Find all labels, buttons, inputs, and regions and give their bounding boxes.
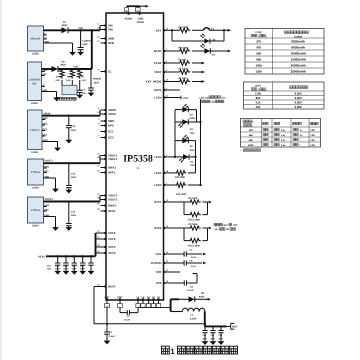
- svg-text:LEDG: LEDG: [154, 88, 162, 92]
- U1 left pin VOUT2 (pin 40): [97, 197, 118, 202]
- resistor R1 3.3K: [55, 69, 64, 82]
- U1 left pin VSYS (pin 13): [97, 230, 115, 235]
- wire row y81.5: [167, 81, 202, 83]
- wire row y72: [167, 71, 202, 73]
- svg-text:SS34: SS34: [199, 295, 205, 298]
- svg-text:36K: 36K: [249, 134, 254, 137]
- svg-text:VCC: VCC: [221, 96, 226, 99]
- svg-text:NTC1 100K: NTC1 100K: [188, 219, 200, 222]
- capacitor C4 10uF on BAT pin: [104, 308, 115, 341]
- table VSET resistor vs battery type: [244, 82, 325, 109]
- U1 right pin BLED (pin 4): [154, 48, 168, 53]
- GND test pad square: [136, 8, 141, 12]
- svg-text:56k: 56k: [256, 51, 261, 55]
- svg-text:10uF: 10uF: [210, 337, 216, 340]
- svg-text:DM1: DM1: [44, 165, 49, 168]
- wire NTC2 row: [167, 227, 184, 229]
- svg-text:TYPE-A: TYPE-A: [31, 209, 41, 212]
- diode D8 SS34: [42, 60, 67, 72]
- wire VOUT1 net (thick) into U1: [44, 156, 101, 165]
- svg-text:VCC: VCC: [183, 97, 189, 100]
- wire row y63: [167, 62, 202, 64]
- Apple e-marker IC box: [62, 80, 77, 95]
- svg-text:R8 56K: R8 56K: [179, 59, 187, 62]
- U1 right pin LED3 (pin 3): [154, 154, 167, 159]
- IC U1 IP5358 power-bank SoC body: [106, 13, 164, 300]
- wire VOUT2 net (thick) into U1: [44, 196, 101, 203]
- resistor R8 56K: [178, 59, 190, 66]
- node VOUT1 label: [45, 160, 54, 163]
- svg-text:USB3: USB3: [31, 151, 38, 154]
- note text LED4 pull-up (CJK): [200, 96, 227, 104]
- net flag arrow y72: [202, 71, 205, 74]
- terminal BAT: [231, 323, 238, 329]
- node VCC label at LED4: [183, 97, 189, 100]
- svg-text:RST: RST: [118, 296, 123, 299]
- svg-text:DNB: DNB: [108, 37, 114, 41]
- svg-text:100%: 100%: [189, 117, 195, 120]
- wire VCC row: [167, 253, 202, 255]
- svg-text:10uF: 10uF: [72, 268, 78, 271]
- U1 left pin VSYS (pin 16): [97, 236, 115, 241]
- svg-text:NTC1: NTC1: [154, 200, 162, 204]
- resistor R2 2.2K: [66, 69, 75, 82]
- capacitor C19 10uF on VSYS: [47, 255, 61, 271]
- wire OTP/OD row: [167, 262, 202, 264]
- svg-text:0.1uF: 0.1uF: [109, 335, 115, 338]
- wire USB4 GND: [42, 92, 57, 98]
- net flag arrow NTC2: [209, 227, 212, 230]
- svg-text:VSET: VSET: [255, 85, 262, 88]
- svg-text:4.40V: 4.40V: [294, 105, 302, 109]
- svg-text:10uF: 10uF: [80, 268, 86, 271]
- svg-text:68k: 68k: [256, 57, 261, 61]
- svg-text:VBUS: VBUS: [108, 112, 116, 116]
- wire VIN bus from D8 (thick): [58, 68, 92, 70]
- resistor R6 10K: [178, 77, 190, 84]
- svg-text:DMA1: DMA1: [108, 166, 116, 170]
- svg-text:20k: 20k: [256, 105, 261, 109]
- svg-text:10uF: 10uF: [47, 268, 53, 271]
- svg-text:10uF: 10uF: [71, 129, 77, 132]
- connector USB1 TYPE-A output: [28, 197, 50, 228]
- svg-text:pin: pin: [215, 228, 219, 231]
- svg-text:R9 100R: R9 100R: [179, 47, 188, 50]
- svg-text:4.30V: 4.30V: [294, 96, 302, 100]
- wire USB5 GND: [44, 43, 73, 52]
- svg-text:USB2: USB2: [32, 187, 39, 190]
- svg-text:VCC: VCC: [156, 252, 162, 256]
- svg-text:VOUT2: VOUT2: [108, 198, 118, 202]
- svg-text:10uF: 10uF: [94, 81, 100, 84]
- capacitor C11 10uF on BAT rail: [202, 326, 208, 342]
- wire USB5 VBUS to diode D7: [44, 29, 62, 31]
- svg-text:CC2: CC2: [108, 136, 114, 140]
- U1 right pin OTP/OD (pin 24): [151, 260, 169, 265]
- svg-text:SS34: SS34: [62, 24, 68, 27]
- svg-text:GND: GND: [138, 18, 144, 21]
- svg-text:DMC: DMC: [108, 119, 114, 123]
- ground for C14: [66, 190, 72, 193]
- table footnote: [241, 149, 261, 153]
- node VBUS label: [44, 112, 51, 115]
- resistor R5 120K: [184, 197, 208, 204]
- LED D3 75%: [175, 119, 201, 135]
- capacitor C2 0.1uF on RST: [120, 308, 138, 322]
- svg-text:BAT: BAT: [105, 296, 110, 299]
- U1 right pin KEY (pin 19): [156, 27, 169, 32]
- svg-text:0.1uF: 0.1uF: [124, 319, 130, 322]
- thermistor NTC1 100K: [184, 202, 208, 222]
- svg-text:51k: 51k: [256, 101, 261, 105]
- net flag arrow y63: [202, 62, 205, 65]
- svg-text:EPAD: EPAD: [137, 21, 144, 24]
- svg-text:LED3: LED3: [154, 155, 162, 159]
- ground for C22: [80, 271, 86, 274]
- svg-text:LX: LX: [157, 296, 160, 299]
- svg-text:CPS: CPS: [156, 281, 162, 285]
- svg-text:*: *: [241, 149, 242, 152]
- svg-text:R11 100K: R11 100K: [175, 176, 186, 179]
- U1 bottom pin LX3 with pad: [146, 296, 150, 308]
- wire VSYS stub y253: [96, 252, 101, 254]
- svg-text:10K: 10K: [249, 129, 254, 132]
- svg-text:DPB: DPB: [108, 41, 114, 45]
- U1 right pin VCC (pin 21): [156, 251, 169, 256]
- svg-text:VSYS: VSYS: [108, 251, 116, 255]
- svg-text:FCAP: FCAP: [154, 61, 162, 65]
- U1 left pin VIN (pin 17): [97, 23, 112, 28]
- capacitor C12 10uF on BAT rail: [210, 326, 216, 342]
- U1 left pin BATS (pin 19): [97, 284, 115, 289]
- net flag arrow KEY to VOUT: [228, 29, 231, 32]
- net flag arrow y81.5: [202, 80, 205, 83]
- U1 right pin NTC2 (pin 26): [154, 225, 169, 230]
- svg-text:VIN: VIN: [108, 28, 113, 32]
- svg-text:1uF: 1uF: [82, 92, 87, 95]
- svg-text:USB1: USB1: [32, 225, 39, 228]
- ground for C11: [202, 342, 208, 345]
- svg-text:DMA2: DMA2: [108, 204, 116, 208]
- wire VBUS net (thick) into U1: [42, 110, 100, 117]
- U1 right pin VSET (pin 8): [154, 69, 168, 74]
- wire VSYS stub y233: [96, 232, 101, 234]
- svg-text:50%: 50%: [190, 149, 195, 152]
- U1 left pin VSYS (pin 47): [97, 250, 115, 255]
- svg-text:VSYS: VSYS: [108, 231, 116, 235]
- svg-text:R5 120K: R5 120K: [189, 197, 198, 200]
- wire USB3 GND: [42, 142, 58, 148]
- wire VSYS stub y247: [96, 246, 101, 248]
- wire LEDG stub: [167, 89, 180, 91]
- wire LED ladder right rail: [199, 99, 201, 186]
- svg-text:CC2: CC2: [43, 133, 48, 136]
- svg-text:Micro-B: Micro-B: [31, 38, 41, 41]
- svg-text:110k: 110k: [255, 92, 262, 96]
- wire KEY parallel branch: [172, 30, 224, 41]
- svg-text:10uF: 10uF: [202, 337, 208, 340]
- svg-text:DMC: DMC: [43, 117, 48, 120]
- svg-text:VIN: VIN: [78, 27, 82, 30]
- push button K1: [204, 28, 215, 31]
- svg-text:120k: 120k: [255, 69, 262, 73]
- inductor L1 2.2uH: [171, 308, 205, 320]
- U1 top pin AGND: [124, 12, 132, 21]
- ground for C10: [78, 52, 84, 55]
- diode D9 SS34 boost output: [179, 292, 207, 302]
- LED D2 50%: [175, 135, 196, 152]
- ground for C12: [210, 342, 216, 345]
- connector USB3 TYPE-C port: [28, 110, 49, 154]
- ground for C19: [55, 271, 61, 274]
- capacitor C1 1uF: [77, 80, 86, 95]
- wire VIN riser joining USB5 rail (thick): [91, 30, 93, 69]
- U1 right pin LED2 (pin 1): [154, 182, 167, 187]
- node VIN label: [78, 27, 82, 30]
- ground for C13: [66, 140, 72, 143]
- svg-text:KEY: KEY: [156, 28, 162, 32]
- svg-text:TYPE-A: TYPE-A: [31, 171, 41, 174]
- svg-text:LX: LX: [147, 296, 150, 299]
- ground for C21: [71, 271, 77, 274]
- U1 left pin DMA2 (pin 29): [97, 203, 116, 208]
- svg-text:27k: 27k: [256, 39, 261, 43]
- thermistor NTC2 100K: [184, 228, 208, 248]
- node VSYS label: [38, 255, 45, 258]
- svg-text:LED1: LED1: [154, 171, 162, 175]
- ground for USB1: [53, 228, 59, 231]
- svg-text:R6 10K: R6 10K: [179, 77, 187, 80]
- wire ladder mid rail: [194, 141, 196, 173]
- svg-text:VIN: VIN: [74, 65, 78, 68]
- svg-text:USB4: USB4: [31, 102, 38, 105]
- wire VSYS stub y239: [96, 238, 101, 240]
- wire VSYS rail (thick): [46, 233, 96, 256]
- svg-text:5000mAh: 5000mAh: [291, 39, 305, 43]
- ground for USB4: [54, 98, 60, 101]
- wire USB1 GND: [44, 217, 56, 228]
- capacitor C13 10uF on BAT rail: [218, 326, 224, 342]
- AGND test pad square: [125, 8, 129, 12]
- ground for C13: [218, 342, 224, 345]
- U1 left pin DNB (pin 13): [97, 36, 114, 41]
- ground for USB2: [53, 189, 59, 192]
- svg-text:100k: 100k: [255, 63, 262, 67]
- U1 bottom pin LX2 with pad: [141, 296, 145, 308]
- svg-text:1: 1: [170, 347, 175, 356]
- table KEY_MODE resistor vs button behaviour: [241, 119, 321, 148]
- U1 left pin VOUT2 (pin 41): [97, 193, 118, 198]
- node VIN label at USB4 bus: [74, 65, 78, 68]
- svg-text:*: *: [300, 144, 301, 147]
- svg-text:0.2uF: 0.2uF: [191, 256, 197, 259]
- svg-text:10uF: 10uF: [71, 176, 77, 179]
- U1 right pin KEY_MODE (pin 10): [146, 79, 169, 84]
- capacitor C5 0.2uF on VCC: [184, 249, 197, 259]
- svg-text:DM2: DM2: [44, 204, 49, 207]
- svg-text:LIGHTNI: LIGHTNI: [29, 78, 40, 81]
- U1 left pin CC2 (pin 6): [98, 135, 114, 140]
- svg-text:68K: 68K: [249, 139, 254, 142]
- ground for C20: [63, 271, 69, 274]
- ground for C4: [104, 341, 110, 344]
- svg-text:NG: NG: [33, 82, 37, 85]
- svg-text:NTC: NTC: [233, 224, 238, 227]
- U1 left pin DPC (pin 8): [98, 123, 114, 128]
- svg-text:100K: 100K: [248, 144, 254, 147]
- U1 left pin CC1 (pin 7): [98, 129, 114, 134]
- svg-text:25%: 25%: [190, 164, 195, 167]
- svg-text:C10(P1): C10(P1): [82, 39, 91, 42]
- LED D5 flashlight: [200, 44, 215, 57]
- resistor R11 100K on LED1: [167, 171, 196, 180]
- U1 right pin LED1 (pin 48): [154, 170, 169, 175]
- svg-text:C14: C14: [71, 172, 76, 175]
- svg-text:TYPE-C: TYPE-C: [30, 129, 40, 132]
- net flag arrow BLED: [228, 50, 231, 53]
- svg-text:LED: LED: [310, 129, 315, 132]
- svg-text:LED2: LED2: [154, 183, 162, 187]
- U1 left pin DMA1 (pin 31): [97, 165, 116, 170]
- svg-text:VOUT1: VOUT1: [108, 157, 118, 161]
- wire LED ladder left rail: [174, 110, 176, 158]
- ground for C15: [66, 228, 72, 231]
- LED D1 25%: [167, 154, 196, 167]
- U1 left pin CL (pin 27): [97, 69, 112, 74]
- svg-text:DPC: DPC: [43, 122, 48, 125]
- ground for USB3: [55, 148, 61, 151]
- svg-text:10uF: 10uF: [82, 43, 88, 46]
- LED D6 on KEY branch: [200, 34, 216, 44]
- svg-text:C15: C15: [71, 210, 76, 213]
- U1 left pin VOUT1 (pin 44): [97, 153, 118, 158]
- svg-text:0.1uF: 0.1uF: [187, 289, 194, 292]
- svg-text:DPA2: DPA2: [108, 209, 116, 213]
- capacitor C22 10uF on VSYS: [72, 255, 86, 271]
- svg-text:VOUT1: VOUT1: [45, 160, 54, 163]
- svg-text:LX: LX: [141, 296, 144, 299]
- U1 left pin VIN (pin 16): [97, 27, 112, 32]
- svg-text:4.20V: 4.20V: [294, 92, 302, 96]
- capacitor C13 10uF on VBUS: [66, 116, 77, 140]
- svg-text:BATS: BATS: [108, 285, 116, 289]
- svg-text:BLED: BLED: [154, 49, 162, 53]
- diode D7 SS34: [62, 21, 69, 33]
- svg-text:VSET: VSET: [154, 70, 162, 74]
- ground for C23: [88, 271, 94, 274]
- resistor R4 120K: [184, 223, 208, 230]
- connector USB5 Micro-B input: [28, 26, 50, 56]
- figure title: Fig.1 simplified application schematic (CJK): [162, 346, 238, 356]
- connector USB4 Lightning input: [28, 62, 48, 105]
- svg-text:LED4 pin: LED4 pin: [200, 96, 211, 99]
- capacitor C16 10uF on VIN bus: [88, 69, 101, 93]
- capacitor C3 0.1uF between CPP and CPS: [167, 274, 197, 292]
- LED D4 100%: [175, 104, 197, 122]
- svg-text:12000mAh: 12000mAh: [290, 57, 306, 61]
- svg-text:2.2UH: 2.2UH: [190, 317, 197, 320]
- svg-text:10uF: 10uF: [63, 268, 69, 271]
- svg-text:LED: LED: [310, 134, 315, 137]
- svg-text:DPA1: DPA1: [108, 171, 116, 175]
- wire BATS sense net: [94, 287, 206, 325]
- capacitor C6 0.2uF on OTP/OD: [184, 259, 197, 268]
- note text NTC unused (CJK): [214, 223, 238, 231]
- net flag arrow VCC: [203, 253, 206, 256]
- U1 right pin NTC1 (pin 12): [154, 199, 169, 204]
- resistor R9 100R: [178, 47, 190, 54]
- svg-text:D-: D-: [44, 32, 47, 35]
- svg-text:10000mAh: 10000mAh: [290, 51, 306, 55]
- svg-text:4.35V: 4.35V: [294, 101, 302, 105]
- svg-text:NTC2: NTC2: [154, 226, 162, 230]
- wire KEY row: [167, 29, 228, 31]
- U1 right pin FCAP (pin 6): [154, 60, 168, 65]
- U1 right pin LED4 (pin 11): [154, 95, 168, 100]
- svg-text:NTC2 100K: NTC2 100K: [188, 245, 200, 248]
- svg-text:BAT: BAT: [232, 326, 237, 329]
- wire VIN net (thick) into U1 VIN pins: [68, 26, 100, 32]
- svg-text:DPC: DPC: [108, 124, 114, 128]
- table FCAP resistor vs cell capacity: [245, 29, 324, 75]
- svg-text:USB5: USB5: [32, 53, 39, 56]
- svg-text:*: *: [300, 139, 301, 142]
- wire NTC1 row: [167, 201, 184, 203]
- U1 right pin CPP (pin 15): [156, 269, 169, 274]
- svg-text:AGND: AGND: [124, 18, 132, 21]
- svg-text:LX: LX: [152, 296, 155, 299]
- svg-text:10uF: 10uF: [218, 337, 224, 340]
- svg-text:47k: 47k: [256, 45, 261, 49]
- svg-text:VIN(P2): VIN(P2): [93, 77, 101, 80]
- svg-text:SS34: SS34: [60, 64, 66, 67]
- svg-text:75%: 75%: [190, 132, 195, 135]
- capacitor C21 10uF on VSYS: [63, 255, 77, 271]
- svg-text:R10 10K: R10 10K: [179, 26, 188, 29]
- svg-text:NTC: NTC: [224, 224, 229, 227]
- U1 left pin DPB (pin 12): [97, 40, 114, 45]
- wire GND strap to net arrow: [127, 5, 149, 8]
- svg-text:0.2uF: 0.2uF: [191, 265, 197, 268]
- resistor R3 1.2K: [78, 69, 87, 82]
- U1 left pin DPA2 (pin 28): [97, 208, 116, 213]
- ground for C1: [77, 95, 83, 98]
- U1 left pin DMC (pin 9): [98, 118, 114, 123]
- ground for USB5: [70, 52, 76, 55]
- wire LX bus under pads: [138, 299, 179, 311]
- wire CPP stub: [167, 271, 180, 273]
- svg-text:C13: C13: [71, 125, 76, 128]
- svg-text:CC1: CC1: [108, 130, 114, 134]
- U1 bottom pin BAT with pad: [105, 296, 110, 308]
- net flag arrow NTC1: [209, 201, 212, 204]
- U1 right pin LEDG (pin 5): [154, 87, 168, 92]
- ground for C16: [88, 93, 94, 96]
- wire LED4 to VCC flag: [167, 96, 181, 100]
- wire L1 to BAT terminal (thick): [205, 312, 231, 327]
- connector USB2 TYPE-A output: [28, 159, 50, 190]
- capacitor C14 10uF on VOUT1: [66, 163, 77, 190]
- svg-text:(mAh): (mAh): [294, 35, 302, 38]
- capacitor C23 10uF on VSYS: [80, 255, 94, 271]
- svg-text:1.2K: 1.2K: [81, 79, 86, 82]
- U1 bottom pin RST with pad: [118, 296, 123, 308]
- svg-text:VSYS: VSYS: [38, 255, 45, 258]
- svg-text:R4 120K: R4 120K: [189, 223, 198, 226]
- U1 left pin VBUS (pin 10): [97, 111, 116, 116]
- U1 left pin VOUT1 (pin 43): [97, 156, 118, 161]
- svg-text:R7 110K: R7 110K: [179, 68, 188, 71]
